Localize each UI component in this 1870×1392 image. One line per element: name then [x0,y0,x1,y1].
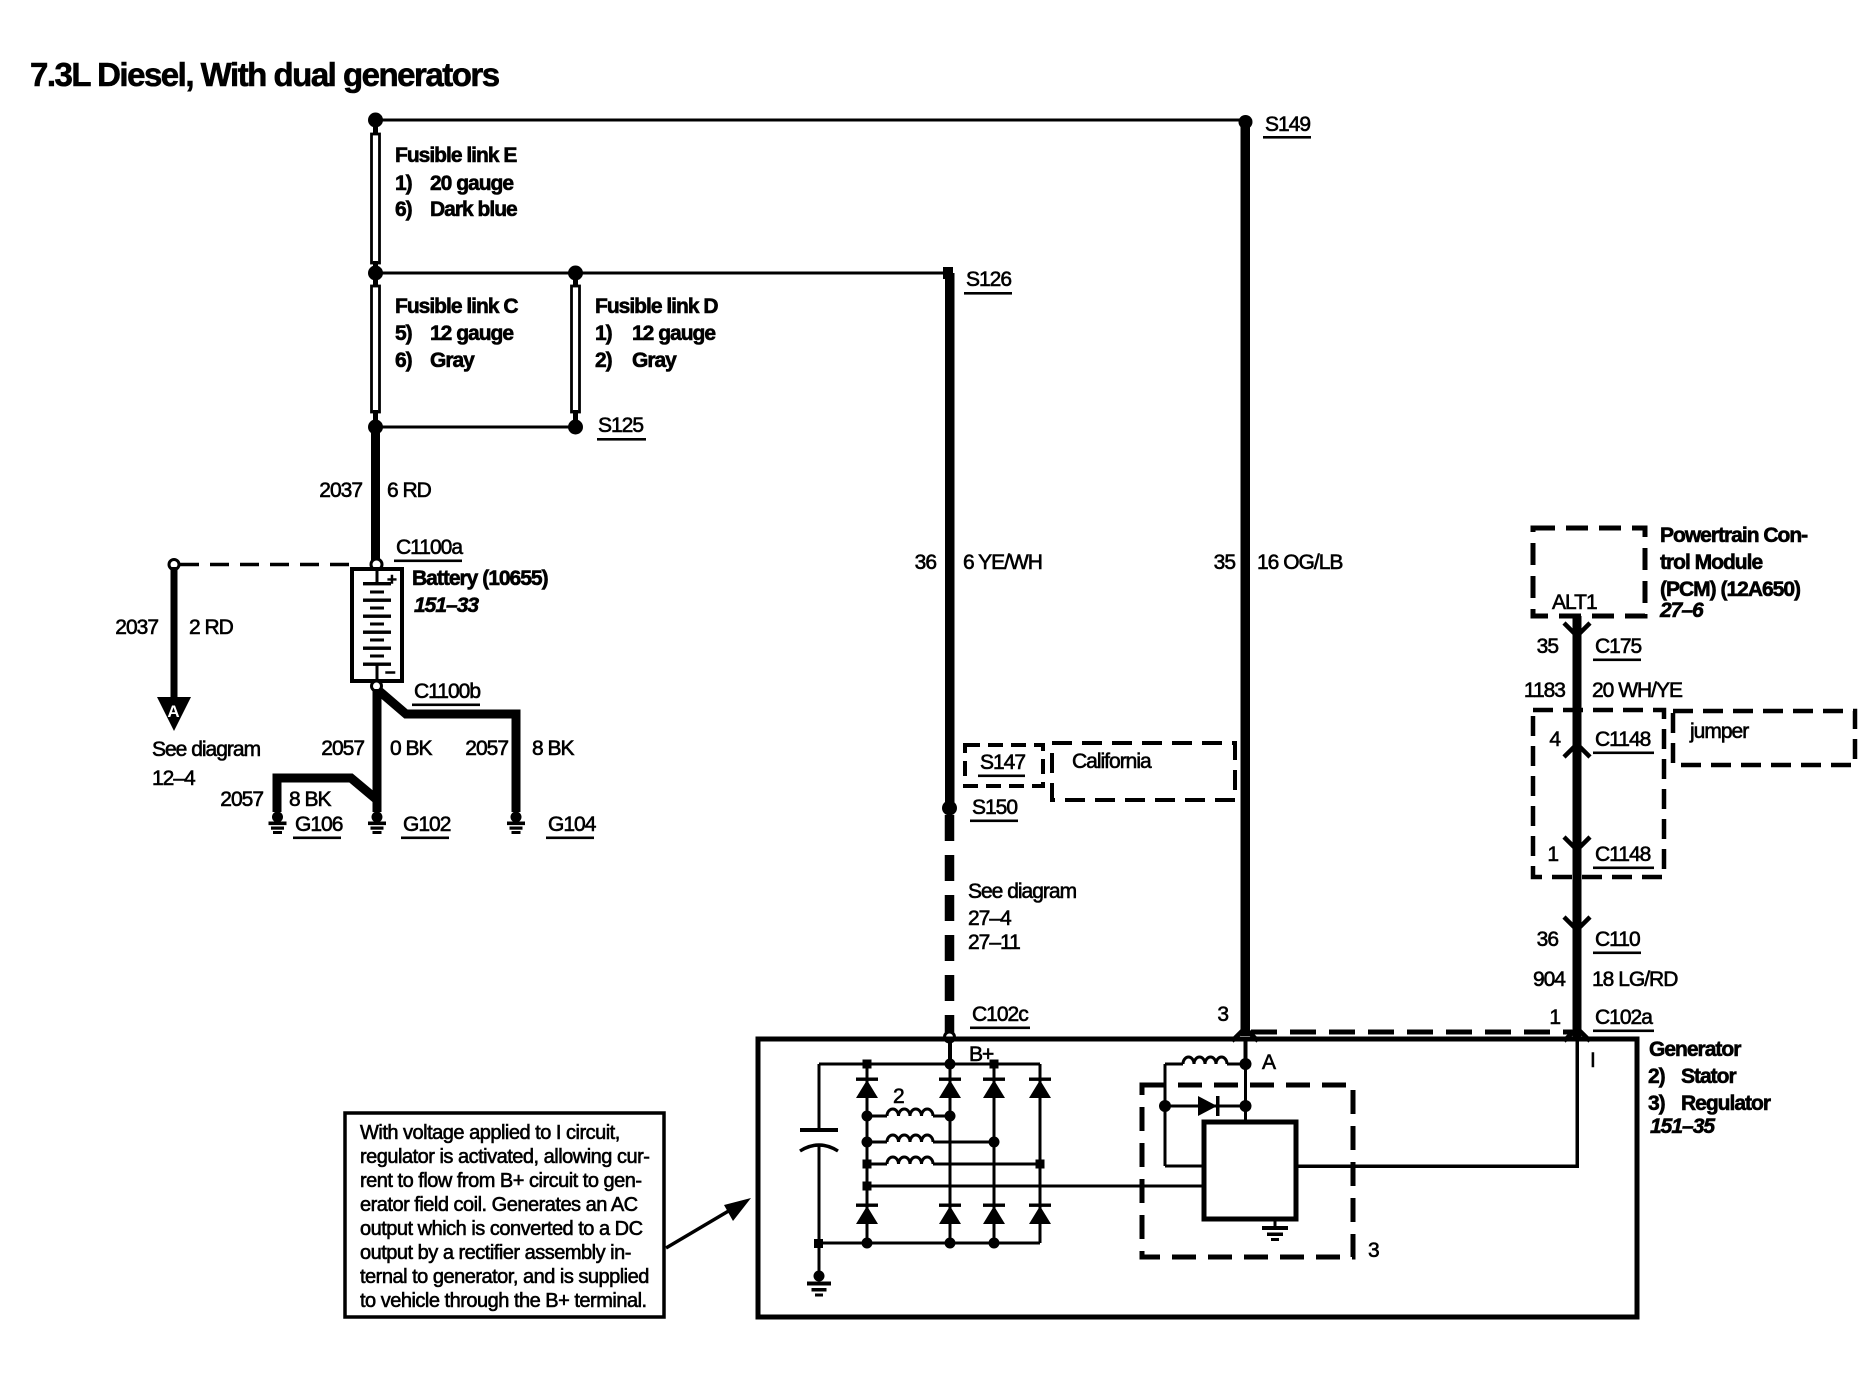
node bottom rail col2 [945,1238,956,1249]
node bottom rail col1 [862,1238,873,1249]
svg-text:California: California [1072,750,1152,773]
wire I horizontal to regulator [1296,1165,1577,1169]
svg-text:Dark blue: Dark blue [430,198,517,221]
wire I vertical [1576,1041,1580,1168]
stator winding L1 [867,1109,950,1118]
connector C1148 pin 4 label [1549,728,1654,754]
svg-text:A: A [1262,1051,1276,1074]
connector C1100b [372,680,481,706]
svg-text:5): 5) [395,322,412,345]
svg-text:Fusible link D: Fusible link D [595,295,718,318]
dashed wire pin3 to C102a [1251,1030,1572,1035]
PCM dashed box [1533,528,1645,616]
label 36 6 YE/WH [915,551,1042,574]
node L1 left [862,1111,873,1122]
wire S149 down 16 OG/LB [1241,120,1251,1036]
label 2057 0 BK [321,737,432,760]
node L1 right [945,1111,956,1122]
svg-text:2 RD: 2 RD [189,616,234,639]
svg-text:4: 4 [1549,728,1561,751]
diode D9 [1198,1096,1220,1116]
wire A down to diode row [1244,1064,1247,1122]
svg-text:S126: S126 [966,268,1011,291]
svg-text:I: I [1590,1049,1595,1072]
fusible link C [372,273,380,427]
label see diagram 12-4 [152,738,261,790]
diode D9 row [1165,1105,1245,1108]
svg-text:2): 2) [1648,1065,1665,1088]
node L3 right [1036,1160,1045,1169]
diode D1 [856,1078,878,1099]
California dashed box [1052,743,1235,800]
connector C1148 pin 1 label [1547,843,1654,869]
wire 2037 6 RD battery feed [371,427,380,561]
connector arrow C102a [1564,1028,1590,1041]
wire B+ entry [948,1041,952,1066]
label 35 16 OG/LB [1214,551,1343,574]
svg-text:1183: 1183 [1524,679,1565,702]
svg-text:3: 3 [1217,1003,1228,1026]
wire branch to G104 [378,690,516,812]
svg-text:151–35: 151–35 [1650,1115,1715,1138]
stator column 3 [993,1064,996,1243]
svg-text:2057: 2057 [321,737,364,760]
connector arrow C110 [1564,917,1590,930]
svg-text:151–33: 151–33 [414,594,479,617]
svg-text:904: 904 [1533,968,1566,991]
svg-text:C110: C110 [1595,928,1640,951]
svg-text:Battery (10655): Battery (10655) [412,567,548,590]
svg-text:6 YE/WH: 6 YE/WH [963,551,1042,574]
off-page arrow A [157,697,191,731]
node L2 left [862,1137,873,1148]
svg-text:C175: C175 [1595,635,1642,658]
svg-text:G106: G106 [295,813,343,836]
svg-text:6): 6) [395,349,412,372]
wire branch to G106 [277,778,376,812]
svg-text:3): 3) [1648,1092,1665,1115]
diode D4 [1029,1078,1051,1099]
diode D2 [939,1078,961,1099]
node capacitor bottom [814,1239,823,1248]
label 1183 20 WH/YE [1524,679,1683,702]
node bottom rail col3 [989,1238,1000,1249]
svg-text:1: 1 [1549,1006,1560,1029]
jumper dashed box [1673,711,1855,765]
battery B1 (10655) [352,569,402,683]
rectifier bottom rail [818,1242,1040,1245]
svg-text:C102a: C102a [1595,1006,1653,1029]
svg-text:Fusible link E: Fusible link E [395,144,517,167]
svg-text:Stator: Stator [1681,1065,1737,1088]
connector C110 label [1537,928,1641,954]
node S150 [942,801,957,816]
capacitor C1 [800,1064,838,1243]
svg-text:6 RD: 6 RD [387,479,432,502]
svg-text:S125: S125 [598,414,643,437]
svg-text:Powertrain Con-: Powertrain Con- [1660,524,1808,547]
svg-text:ALT1: ALT1 [1552,591,1597,614]
wire stator tap to regulator [867,1185,1204,1188]
svg-text:S147: S147 [980,751,1025,774]
connector C102a label [1549,1006,1654,1032]
svg-text:2037: 2037 [115,616,158,639]
connector C175 label [1537,635,1642,661]
label 2037 2 RD [115,616,233,639]
svg-text:7.3L Diesel, With dual generat: 7.3L Diesel, With dual generators [30,56,499,93]
label see diagram 27-4 27-11 [968,880,1077,954]
stator column 2 [949,1064,952,1243]
connector arrow C1148 pin 4 [1564,744,1590,757]
wire capacitor ground stem [818,1243,821,1273]
wire choke loop to regulator left pin [1165,1165,1205,1168]
ground G106 [269,812,287,835]
diode D8 [1029,1204,1051,1225]
svg-text:(PCM) (12A650): (PCM) (12A650) [1660,578,1800,601]
svg-text:16 OG/LB: 16 OG/LB [1257,551,1342,574]
svg-text:12 gauge: 12 gauge [632,322,715,345]
svg-text:Gray: Gray [632,349,677,372]
regulator block U1 [1204,1122,1296,1219]
fusible link E [372,120,380,275]
node A junction [1240,1058,1252,1070]
connector arrow C175 [1564,623,1590,636]
node S125 [568,420,583,435]
svg-text:2037: 2037 [319,479,362,502]
node top rail col2 B+ [945,1059,956,1070]
svg-text:2): 2) [595,349,612,372]
connector C1100a [371,536,463,570]
svg-text:36: 36 [915,551,937,574]
stator winding L2 [867,1135,994,1143]
svg-text:to vehicle through the B+ term: to vehicle through the B+ terminal. [360,1290,647,1312]
label 2057 8 BK right [465,737,574,760]
connector arrow C1148 pin 1 [1564,837,1590,850]
svg-text:35: 35 [1214,551,1236,574]
stator column 4 [1039,1064,1042,1243]
PCM label [1659,524,1808,622]
wire ALT1 down to generator [1573,616,1582,1039]
battery label [412,567,548,617]
ground G104 [507,812,525,835]
wire second horizontal to S126 [375,272,946,275]
svg-text:A: A [167,702,179,721]
wire S126 down 6 YE/WH [945,273,955,808]
node S126 [943,267,953,279]
fusible link C label [395,295,518,372]
svg-text:8 BK: 8 BK [532,737,575,760]
svg-text:0 BK: 0 BK [390,737,433,760]
ground regulator [1262,1219,1288,1241]
svg-text:2057: 2057 [465,737,508,760]
svg-text:Gray: Gray [430,349,475,372]
svg-text:erator field coil. Generates a: erator field coil. Generates an AC [360,1194,638,1216]
dashed wire S150 to C102c [945,815,955,1033]
svg-text:Generator: Generator [1649,1038,1741,1061]
svg-text:output by a rectifier assembly: output by a rectifier assembly in- [360,1242,631,1264]
svg-text:S149: S149 [1265,113,1310,136]
svg-text:rent to flow from B+ circuit t: rent to flow from B+ circuit to gen- [360,1170,642,1192]
fusible link D label [595,295,718,372]
svg-text:See diagram: See diagram [968,880,1077,903]
fusible link D [572,273,580,427]
splice S147 dashed box [965,745,1043,786]
regulator field choke loop top [1165,1057,1245,1066]
ground generator capacitor [807,1271,831,1297]
svg-text:1): 1) [395,172,412,195]
svg-text:20 WH/YE: 20 WH/YE [1592,679,1683,702]
diode D5 [856,1204,878,1225]
note box [345,1113,664,1317]
svg-text:27–4: 27–4 [968,907,1012,930]
node splice below link E [368,266,383,281]
svg-text:C1148: C1148 [1595,843,1651,866]
regulator dashed box 3 [1142,1085,1353,1257]
label 904 18 LG/RD [1533,968,1678,991]
svg-text:ternal to generator, and is su: ternal to generator, and is supplied [360,1266,649,1288]
generator label [1648,1038,1771,1138]
svg-text:Regulator: Regulator [1681,1092,1771,1115]
node top of fusible link D [568,266,583,281]
svg-text:12 gauge: 12 gauge [430,322,513,345]
rectifier top rail [819,1063,1040,1066]
fusible link E label [395,144,517,221]
svg-text:27–11: 27–11 [968,931,1020,954]
node top splice junction [368,113,383,128]
ground G102 [368,812,386,835]
svg-text:27–6: 27–6 [1659,599,1704,622]
svg-text:6): 6) [395,198,412,221]
connector C102c [945,1003,1031,1042]
C1148 dashed box [1533,710,1664,877]
svg-text:G104: G104 [548,813,597,836]
node L2 right [989,1137,1000,1148]
svg-text:36: 36 [1537,928,1559,951]
svg-text:S150: S150 [972,796,1017,819]
node diode right [1240,1100,1252,1112]
wire S125 horizontal [375,426,575,429]
node S125 left [368,420,383,435]
svg-text:See diagram: See diagram [152,738,261,761]
wire A entry [1244,1041,1248,1066]
dashed wire to diagram 12-4 [180,563,349,567]
stator winding L3 [867,1157,1040,1166]
svg-text:20 gauge: 20 gauge [430,172,513,195]
svg-text:1: 1 [1547,843,1558,866]
svg-text:8 BK: 8 BK [289,788,332,811]
node top rail col3 [990,1060,999,1069]
wire top horizontal bus [375,119,1245,122]
svg-text:2057: 2057 [220,788,263,811]
svg-text:12–4: 12–4 [152,767,196,790]
svg-text:regulator is activated, allowi: regulator is activated, allowing cur- [360,1146,649,1168]
svg-text:Fusible link C: Fusible link C [395,295,518,318]
svg-text:1): 1) [595,322,612,345]
node open circle left [169,560,179,570]
svg-text:18 LG/RD: 18 LG/RD [1592,968,1678,991]
node tap [863,1182,872,1191]
label 2057 8 BK left [220,788,331,811]
wire battery negative to G102 [373,689,382,812]
svg-text:3: 3 [1368,1239,1379,1262]
svg-text:2: 2 [893,1085,904,1108]
generator box [758,1039,1637,1317]
node diode left [1159,1100,1171,1112]
diode D7 [983,1204,1005,1225]
svg-text:With voltage applied to I circ: With voltage applied to I circuit, [360,1122,620,1144]
svg-text:trol Module: trol Module [1660,551,1762,574]
label 2037 6 RD [319,479,431,502]
diode D6 [939,1204,961,1225]
svg-text:C1100b: C1100b [414,680,480,703]
svg-text:output which is converted to a: output which is converted to a DC [360,1218,643,1240]
node S149 [1239,115,1253,129]
svg-text:jumper: jumper [1689,720,1749,743]
svg-text:G102: G102 [403,813,451,836]
svg-text:+: + [387,570,397,589]
svg-text:–: – [385,662,395,683]
diode D3 [983,1078,1005,1099]
svg-text:C1148: C1148 [1595,728,1651,751]
node top rail col1 [863,1060,872,1069]
svg-text:C102c: C102c [972,1003,1028,1026]
svg-text:35: 35 [1537,635,1559,658]
arrow note to generator [666,1198,751,1248]
wire choke left vertical [1164,1064,1167,1166]
wire 2037 2 RD [171,567,178,699]
connector arrow at pin 3 [1232,1028,1258,1041]
stator column 1 [866,1064,869,1243]
svg-text:C1100a: C1100a [396,536,463,559]
node L3 left [863,1160,872,1169]
